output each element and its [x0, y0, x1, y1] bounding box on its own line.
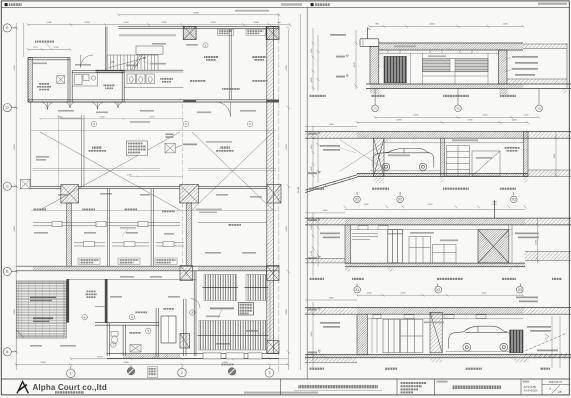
header right scale note — [538, 3, 567, 5]
CB mid leader texts — [120, 227, 136, 229]
C left end window x-box — [21, 179, 31, 189]
right dim chains — [287, 14, 301, 370]
stair landing — [136, 46, 163, 54]
partition in right wing — [229, 29, 231, 100]
svg-text:X2: X2 — [436, 288, 440, 292]
driveway labels — [92, 147, 102, 149]
svg-text:X1: X1 — [355, 288, 359, 292]
s1 left wall — [370, 46, 379, 84]
scattered notes — [30, 43, 262, 347]
CB zone partition 1 (hatched) — [67, 203, 72, 266]
s4 left thin mullions — [371, 318, 373, 353]
left plan boundary D-C — [30, 102, 32, 186]
s2 floor — [357, 173, 528, 176]
s1 floor — [366, 84, 571, 89]
s3 foundation stubs — [345, 267, 351, 272]
s4 mid wall — [430, 312, 442, 353]
svg-text:A4:S=1/100: A4:S=1/100 — [524, 389, 539, 393]
bottom rooms partitions — [107, 271, 196, 356]
room A top line — [69, 278, 196, 280]
svg-text:2,990: 2,990 — [210, 22, 216, 24]
stair note — [150, 63, 166, 65]
EV shaft — [161, 316, 176, 343]
svg-text:4,550: 4,550 — [481, 292, 487, 294]
CB upper window row — [33, 223, 267, 226]
s1 parapet — [360, 39, 379, 47]
room1 texts — [39, 83, 49, 85]
CB room labels — [33, 209, 46, 211]
stair note row — [119, 34, 176, 36]
logo jp sub blob — [55, 391, 84, 393]
s3 left lower band — [305, 258, 345, 263]
svg-text:2: 2 — [181, 371, 183, 375]
B row column right — [267, 266, 280, 281]
s2 ramp — [305, 175, 357, 193]
architect cell blobs — [400, 382, 426, 384]
section cut note box — [148, 367, 158, 378]
svg-text:X2: X2 — [398, 198, 402, 202]
C row column 2 — [180, 185, 199, 204]
right exterior wall — [267, 27, 274, 354]
header right title blob — [315, 3, 330, 6]
svg-text:2,400: 2,400 — [354, 62, 356, 68]
D row wall — [28, 100, 279, 102]
s2 top slab — [305, 132, 571, 139]
svg-text:2023-06-01: 2023-06-01 — [549, 380, 563, 384]
s2 notes — [320, 145, 340, 147]
toilet block — [124, 72, 183, 88]
left dim chain — [15, 23, 24, 370]
s1 divider-side dim chain — [312, 28, 320, 91]
s3 hatched shaft — [478, 230, 509, 263]
toilet — [111, 332, 118, 344]
svg-text:X3: X3 — [518, 288, 522, 292]
info box (dark) — [239, 303, 254, 316]
bike rack cluster A — [203, 275, 239, 301]
bottom wing west wall — [66, 279, 69, 323]
stair arrow — [108, 58, 146, 69]
svg-text:4,550: 4,550 — [14, 65, 16, 71]
driveway X left — [40, 132, 180, 210]
s2 top dim — [305, 121, 529, 127]
scale cell — [523, 381, 530, 383]
top dim row — [27, 23, 292, 26]
s3 floor — [345, 263, 525, 267]
s2 ceiling — [384, 142, 524, 144]
s3 right dim — [537, 219, 539, 264]
s3 top slab — [305, 218, 571, 225]
balcony notes — [30, 297, 56, 299]
s3 ceiling — [351, 229, 513, 231]
s4 top slab — [305, 307, 571, 314]
corridor wall — [95, 323, 159, 326]
svg-text:4,550: 4,550 — [286, 144, 288, 150]
svg-text:3,990: 3,990 — [396, 120, 402, 122]
driveway lower edge — [31, 210, 277, 212]
balcony left stub — [15, 338, 17, 352]
svg-text:1,980: 1,980 — [328, 124, 334, 126]
s1 grid bubbles — [372, 89, 542, 112]
column E2 — [183, 26, 196, 39]
svg-text:1,980: 1,980 — [328, 298, 334, 300]
s4 captions — [309, 368, 324, 370]
C row column 3 — [267, 185, 281, 204]
svg-text:X1: X1 — [355, 198, 359, 202]
A row column right — [267, 341, 279, 354]
svg-text:2,450: 2,450 — [535, 239, 537, 245]
svg-text:1,190: 1,190 — [127, 174, 132, 176]
s2 left wall — [374, 138, 385, 176]
s4 ceiling — [368, 318, 523, 320]
s1 inner notes — [330, 34, 346, 36]
svg-text:1,180: 1,180 — [363, 204, 369, 206]
bottom exterior wall — [107, 354, 279, 359]
s1 louver band — [423, 59, 489, 72]
grid2 centerline — [181, 104, 183, 265]
stair hall left wall — [96, 27, 184, 72]
door tag circles on D wall — [91, 121, 96, 126]
right wing room texts — [203, 43, 208, 48]
CB window tag boxes — [78, 258, 100, 264]
s2 right room label — [504, 147, 520, 149]
s3 captions — [309, 278, 324, 280]
svg-text:18,500: 18,500 — [298, 186, 300, 193]
drain pit x-box — [165, 143, 183, 153]
s1 right notes — [512, 56, 538, 58]
svg-text:1,480: 1,480 — [253, 22, 259, 24]
svg-text:A2:S=1/50: A2:S=1/50 — [524, 385, 537, 389]
s3 left counter — [352, 234, 378, 240]
svg-text:2,400: 2,400 — [311, 77, 313, 83]
s4 dark grille — [510, 330, 524, 353]
svg-text:Y1: Y1 — [373, 106, 377, 110]
rack labels — [210, 308, 234, 310]
CB zone partition 3 — [151, 189, 153, 267]
s4 foundation stubs — [430, 358, 442, 363]
s1 mullions — [411, 53, 489, 84]
svg-text:Y3: Y3 — [537, 106, 541, 110]
s4 left wall — [357, 314, 368, 355]
s3 elevator door — [388, 230, 403, 263]
title cells verticals — [280, 379, 542, 395]
s2 door unit — [472, 151, 500, 176]
svg-text:2,250: 2,250 — [100, 117, 105, 119]
svg-text:2,780: 2,780 — [467, 120, 473, 122]
svg-text:4,550: 4,550 — [14, 309, 16, 315]
s1 rooftop pole — [366, 28, 371, 39]
room1 window x-box — [57, 76, 65, 84]
title block top rule — [1, 378, 569, 380]
door arc room2-stair — [81, 55, 94, 68]
forecourt dim row — [39, 118, 183, 120]
svg-text:1,200: 1,200 — [311, 48, 313, 54]
s1 ceiling — [379, 52, 499, 54]
s2 grid bubbles — [354, 192, 517, 203]
B row wall — [16, 266, 279, 271]
header right square — [311, 3, 314, 6]
svg-text:Alpha Court co.,ltd: Alpha Court co.,ltd — [33, 383, 107, 392]
room2 — [72, 71, 124, 102]
svg-text:1,000: 1,000 — [311, 166, 313, 172]
svg-text:4,550: 4,550 — [14, 144, 16, 150]
header rule — [1, 6, 569, 8]
svg-text:1,980: 1,980 — [322, 210, 328, 212]
s1 foundation stubs — [370, 89, 379, 94]
bike rack cluster B — [245, 275, 269, 301]
s4 left dim chain — [312, 302, 314, 368]
driveway spec box — [126, 141, 147, 155]
bike rack cluster C — [198, 321, 269, 351]
s2 right low band — [528, 170, 571, 177]
svg-text:2,450: 2,450 — [311, 331, 313, 337]
room2 fixtures — [72, 71, 97, 86]
svg-text:1,000: 1,000 — [311, 250, 313, 256]
room1 garage — [28, 58, 70, 102]
grid bubble row E — [3, 24, 17, 356]
forecourt dim line — [58, 115, 60, 186]
s4 car — [449, 326, 511, 351]
svg-text:5,890: 5,890 — [123, 362, 129, 364]
svg-text:3,990: 3,990 — [84, 22, 90, 24]
door arc SE — [191, 299, 201, 309]
s1 dark grille door — [384, 56, 406, 82]
s2 FL markers — [318, 132, 320, 134]
s3 divider-side dim chain — [312, 213, 320, 277]
bottom dim rows — [15, 357, 290, 366]
s2 captions — [309, 188, 324, 190]
svg-text:28: 28 — [558, 390, 562, 394]
C row column 1 — [61, 185, 79, 204]
D row double-door arcs — [40, 102, 231, 117]
s2 car — [373, 148, 434, 170]
s4 floor — [305, 355, 571, 358]
s2 mid wall — [441, 138, 445, 176]
s3 right low band — [525, 251, 571, 260]
svg-text:2,450: 2,450 — [554, 153, 556, 159]
bottom wing tags — [129, 314, 134, 319]
CB zone partition 4 (hatched) — [186, 203, 192, 266]
s4 top dim — [305, 294, 525, 300]
svg-text:UP: UP — [111, 61, 115, 64]
s3 FL markers — [318, 218, 320, 220]
bottom wall window boxes — [203, 353, 221, 359]
svg-text:2,890: 2,890 — [40, 362, 46, 364]
s2 left dim chain — [312, 126, 320, 189]
svg-text:2,090: 2,090 — [400, 292, 406, 294]
svg-text:Y2: Y2 — [456, 106, 460, 110]
s3 notes — [320, 233, 340, 235]
forecourt divider wall — [82, 115, 84, 186]
svg-text:6,390: 6,390 — [413, 115, 419, 117]
drawing name blob — [452, 385, 501, 389]
s4 right dims — [551, 316, 553, 368]
s1 left dim — [355, 30, 357, 89]
svg-text:1,180: 1,180 — [366, 292, 372, 294]
s2 foundation stubs — [374, 178, 385, 184]
half divider — [306, 7, 308, 379]
svg-text:1,230: 1,230 — [523, 115, 529, 117]
s3 left wall — [345, 225, 351, 263]
top-left fence note — [35, 41, 54, 43]
s1 roof slab band — [379, 43, 523, 50]
drawing-name header blob — [437, 381, 448, 383]
bottom grid bubbles — [67, 367, 274, 378]
drain channel left — [33, 169, 276, 171]
svg-text:3,190: 3,190 — [97, 357, 103, 359]
svg-text:6,990: 6,990 — [193, 12, 199, 14]
CB zone partition 2 — [107, 189, 109, 267]
svg-text:4,550: 4,550 — [429, 23, 435, 25]
svg-text:X3: X3 — [512, 198, 516, 202]
balcony deck hatch — [16, 281, 66, 338]
svg-text:2,730: 2,730 — [53, 47, 59, 49]
C row wall segments — [30, 186, 267, 188]
svg-text:4,550: 4,550 — [427, 204, 433, 206]
svg-text:1,490: 1,490 — [123, 22, 129, 24]
logo mark — [17, 382, 28, 394]
s4 ramp right — [521, 333, 567, 353]
svg-text:1,980: 1,980 — [46, 22, 52, 24]
driveway lower dim — [130, 176, 183, 178]
s4 FL markers — [318, 308, 320, 310]
svg-text:1,280: 1,280 — [511, 120, 517, 122]
section cut marker 2 — [221, 364, 236, 375]
s1 top dim line — [369, 25, 525, 28]
svg-text:4,550: 4,550 — [286, 309, 288, 315]
s4 notes — [320, 322, 340, 324]
header left scale note — [281, 3, 302, 5]
wall tag boxes on top wall — [218, 29, 234, 35]
column E3 — [266, 26, 279, 39]
svg-text:4,850: 4,850 — [286, 226, 288, 232]
svg-text:4,050: 4,050 — [482, 115, 488, 117]
s3 grid bubbles — [354, 284, 523, 294]
dim stub above room1 — [27, 48, 72, 51]
B row column left — [180, 266, 193, 281]
room labels mid — [135, 312, 147, 314]
svg-text:3: 3 — [268, 371, 270, 375]
header left square — [5, 3, 8, 6]
svg-text:1: 1 — [70, 372, 72, 376]
s1 right low band — [507, 78, 567, 80]
CB window sill rows — [74, 243, 184, 246]
top dim row upper — [119, 14, 280, 16]
header left title blob — [9, 3, 22, 6]
s1 FL markers — [346, 55, 348, 57]
boundary note — [235, 10, 269, 12]
svg-text:4,550: 4,550 — [286, 65, 288, 71]
svg-text:4,850: 4,850 — [14, 226, 16, 232]
s2 right dim — [555, 132, 557, 177]
s3 lightning rod — [494, 200, 496, 218]
balcony corner cut — [16, 330, 24, 338]
boundary line right — [278, 14, 280, 372]
s3 right wall — [509, 225, 512, 263]
svg-text:2,990: 2,990 — [161, 22, 167, 24]
storage x-box — [130, 345, 141, 352]
s1 right wall — [499, 50, 508, 84]
svg-text:A: A — [549, 386, 551, 390]
svg-text:3,190: 3,190 — [150, 117, 155, 119]
driveway X right — [192, 132, 273, 210]
s2 cabinet — [447, 146, 470, 177]
s2 right wall — [524, 132, 529, 177]
bottom wing wall mid — [105, 279, 108, 323]
svg-text:2,290: 2,290 — [502, 23, 508, 25]
A row column left — [180, 334, 190, 349]
s3 cabinets — [409, 237, 456, 264]
s4 door panels — [383, 319, 423, 353]
svg-text:1,170: 1,170 — [32, 47, 38, 49]
project name blob — [298, 385, 378, 388]
s2 sight lines — [340, 140, 388, 171]
registration note blob — [244, 392, 318, 394]
s3 top dim — [305, 205, 527, 213]
section cut marker 1 — [127, 365, 134, 375]
room A tag — [82, 315, 87, 320]
s1 sub dim row — [374, 116, 541, 119]
s1 captions — [309, 95, 326, 97]
room A texts — [87, 291, 96, 293]
stair treads — [107, 55, 158, 70]
driveway upper edge — [31, 130, 277, 132]
top wall (E row, right wing) — [119, 27, 280, 29]
svg-text:1,450: 1,450 — [311, 144, 313, 150]
rack room inner wall — [269, 281, 271, 341]
s4 below-left hatch — [305, 362, 357, 364]
